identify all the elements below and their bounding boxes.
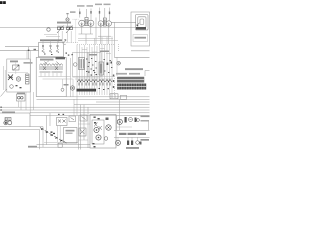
resistor on grid line [34, 49, 37, 51]
rectifier box [92, 120, 104, 144]
power box [90, 115, 116, 149]
wire grid line [0, 49, 39, 51]
component cluster row [86, 58, 112, 73]
detector box [7, 59, 31, 92]
transistor Q8 [117, 119, 122, 124]
tube V1 envelope right [88, 20, 94, 26]
grid cap tick [66, 13, 68, 14]
wire tie 1 [39, 76, 71, 78]
coil L2 [52, 64, 63, 73]
wire right mid feed [114, 56, 149, 58]
bus line 2 [37, 98, 150, 100]
cluster extra marks [88, 70, 97, 76]
label switch band [116, 73, 140, 75]
wire corner drops [47, 113, 51, 145]
label IF dark [56, 57, 66, 59]
choke coil row [78, 80, 112, 86]
wire V1 top leads [80, 9, 91, 21]
transformer can T2 [103, 18, 106, 26]
label crystal [17, 93, 25, 95]
battery box [0, 113, 30, 127]
lamp [16, 77, 20, 81]
tube V2 envelope left [98, 21, 103, 26]
heater marks [93, 143, 96, 147]
bar ganged switch [77, 89, 97, 92]
terminal box corner [145, 71, 150, 77]
wire feeder ties [78, 124, 90, 140]
wire right top feed [131, 50, 150, 52]
wire left risers [19, 50, 34, 113]
trimmer capacitor C2 [66, 26, 73, 43]
transistor Q1 [42, 45, 44, 52]
arrow voice coil [137, 23, 140, 26]
wire osc lead up [67, 13, 69, 26]
wire cluster B stubs [118, 137, 138, 140]
bus line 7 [30, 115, 150, 117]
rectifier X marks [94, 123, 102, 130]
pilot lamp [47, 28, 50, 31]
wire V2 bottom leads [98, 26, 111, 44]
title text [0, 1, 6, 4]
label amp L [89, 54, 97, 56]
speaker frame outer [136, 15, 149, 31]
wire dashed stage line [64, 42, 78, 44]
transistor Q6 [106, 125, 111, 130]
bus line 6 [30, 112, 150, 114]
junction dots [99, 88, 110, 90]
wire pilot stubs [44, 35, 60, 37]
wire feeder verticals [79, 105, 89, 150]
wire bottom ties [37, 145, 91, 148]
label right2 [141, 139, 150, 141]
capacitor cluster [135, 118, 140, 123]
wire AVC drop [28, 47, 30, 59]
wire dashed bias line [77, 44, 114, 46]
wire speaker drop right [118, 44, 120, 52]
bus line 5 [0, 109, 150, 111]
speaker box [131, 12, 150, 46]
vibrator box [79, 128, 86, 136]
wire coil leads [41, 73, 61, 77]
pointer diagonal [1, 89, 7, 97]
transistor Q2 [49, 45, 51, 52]
label converter stage [40, 39, 62, 41]
speaker label [136, 27, 146, 30]
wire right mid drop [119, 99, 121, 131]
wire det inner ties [8, 63, 28, 75]
amplifier box L [73, 53, 89, 78]
IF can B [99, 62, 103, 75]
wire bottom right bus2 [114, 136, 150, 138]
label det [10, 61, 18, 63]
resistor block [26, 74, 30, 84]
label osc [70, 11, 76, 13]
resistor dots osc [44, 53, 73, 56]
resistor on lead V2 [99, 11, 110, 14]
electrode dot V1 [81, 24, 91, 25]
wire lower bus 1 [0, 127, 43, 148]
bypass cap [74, 63, 78, 67]
wire chain verticals [58, 126, 61, 143]
label box output transformer [133, 35, 148, 42]
electrolytic can [125, 117, 127, 123]
transistor Q3 [56, 45, 58, 52]
capacitor small [10, 85, 14, 89]
wire bottom right bus [114, 129, 150, 131]
bus dots [58, 114, 64, 115]
label volume control [125, 68, 143, 70]
wire dashed osc lead [75, 20, 77, 43]
transformer can T1 [85, 18, 88, 26]
wire trimmer top tie [57, 25, 73, 27]
label battery [2, 112, 15, 114]
IF transformer box [36, 58, 66, 97]
coil L1 [40, 64, 51, 73]
motor circles [4, 121, 12, 125]
rotary switch chain [40, 128, 67, 144]
wire lower bus 2 [0, 129, 40, 149]
label V1 [77, 5, 85, 7]
rectifier marks [94, 117, 100, 124]
small can [104, 137, 108, 141]
resistor on bus [110, 94, 118, 99]
oscillator box [39, 43, 64, 57]
dense wiring verticals [80, 36, 113, 95]
bus line 4 [0, 106, 150, 108]
wire padder lead [62, 79, 64, 88]
wire dashed top stub [73, 18, 79, 20]
diode mark [140, 142, 142, 145]
speaker frame mid [138, 17, 146, 28]
wire plate line [78, 38, 113, 40]
trimmer capacitor C1 [57, 26, 64, 43]
label right3 [126, 147, 139, 149]
electrode dot V2 [100, 24, 109, 25]
wire interstage [95, 18, 97, 45]
tone box [64, 128, 78, 144]
junction blobs [107, 62, 113, 66]
resistor on lead V1 [79, 11, 92, 14]
junction dot osc [67, 27, 68, 28]
wire q7 lead [116, 57, 118, 76]
label IF inner [40, 59, 54, 64]
transistor Q5 [8, 75, 13, 81]
wire jumper ticks [82, 49, 111, 54]
tube V1 envelope left [79, 20, 85, 26]
capacitor can A [129, 118, 133, 122]
wire V1 bottom leads [79, 27, 94, 45]
relay box small [69, 116, 76, 122]
arrow pointer [63, 40, 67, 45]
wire chain bottom tie [44, 141, 78, 143]
tube V2 envelope right [106, 21, 111, 26]
IF can A [79, 58, 85, 70]
wire speaker feed top [111, 21, 136, 23]
oscillator coil [66, 18, 69, 21]
wire main antenna bus [0, 26, 136, 28]
transformer tap [106, 118, 109, 121]
wafer switch S2 [117, 84, 146, 90]
wire left edge leads [4, 66, 6, 90]
crystal box [17, 94, 26, 101]
bus line 1 [66, 96, 149, 98]
crystal cells [18, 96, 24, 99]
junction dot grid [28, 50, 30, 51]
wire osc glyph leads [43, 41, 58, 46]
speaker frame inner [140, 19, 144, 25]
wafer side marks [113, 75, 115, 89]
label det2 [24, 62, 33, 64]
coil arrows [45, 62, 59, 65]
variable capacitor [13, 65, 20, 70]
can small [136, 141, 140, 145]
transistor Q7 [117, 61, 121, 65]
transistor Q4 [70, 86, 74, 90]
amplifier box R [88, 53, 101, 78]
tube heater 1 [94, 127, 99, 132]
label strip dial [119, 133, 146, 135]
wire speaker drop left [113, 22, 115, 57]
wire AVC line [5, 46, 39, 48]
terminal block [58, 143, 62, 147]
transistor Q9 [116, 140, 121, 145]
wire risers right of IF box [71, 45, 78, 116]
label V2b [104, 4, 111, 6]
tube heater 2 [96, 135, 101, 140]
wafer switch S1 [117, 77, 144, 83]
wire screen line [78, 40, 118, 42]
switch box [57, 118, 68, 126]
bus line 3 [74, 104, 150, 106]
wire tie rows [73, 77, 113, 80]
wire V2 top leads [100, 8, 110, 21]
resistor marks [16, 85, 22, 88]
bus line 2b [96, 101, 150, 103]
label right1 [141, 116, 150, 122]
wire cluster tie [117, 126, 133, 128]
wire right corner stub [148, 121, 150, 130]
capacitor on bus [121, 95, 127, 99]
padder cap [61, 88, 64, 91]
wire dashed wafer lead [113, 76, 115, 96]
label padder [64, 84, 69, 86]
label fig number [28, 146, 37, 148]
label V1b [87, 5, 94, 7]
label V2a [95, 4, 102, 6]
label tuning [57, 22, 71, 24]
label amp R [100, 51, 109, 53]
contact bank [51, 132, 56, 135]
wire tie 2 [43, 78, 74, 80]
terminal ticks [1, 107, 2, 111]
coil X marks [43, 67, 58, 71]
wire cluster A left edge [116, 116, 118, 131]
fuse box [80, 115, 87, 121]
vibrator unit [5, 118, 11, 121]
resistor pair [127, 141, 133, 146]
